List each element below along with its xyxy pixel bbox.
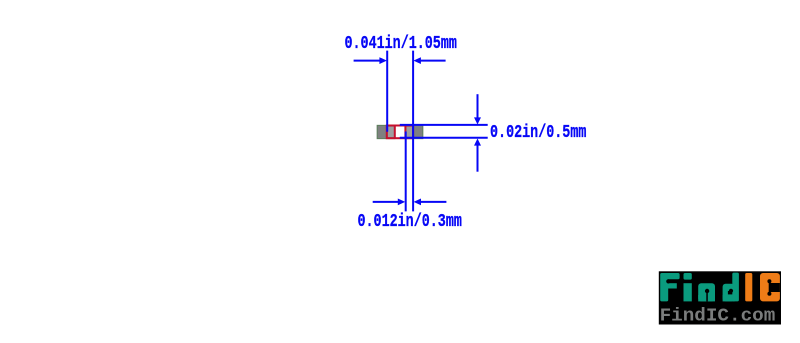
logo via dot on F [666, 279, 670, 283]
right terminal overlap [406, 127, 412, 137]
extension line B [412, 51, 414, 212]
right dimension bottom horizontal line [400, 137, 488, 139]
top dimension right arrowhead [413, 57, 421, 64]
extension line A [386, 51, 388, 132]
logo notch on d [728, 291, 732, 294]
logo letter i stem [684, 283, 692, 301]
logo via dot on d [729, 289, 733, 293]
logo letter I [745, 273, 752, 301]
logo via dot on C bottom [767, 292, 771, 296]
body right terminal divider [404, 126, 406, 139]
FindIC logo background [659, 271, 781, 324]
logo via dot on C top [767, 279, 771, 283]
right dimension lower extension line [477, 145, 479, 172]
logo letter F mid bar [666, 283, 677, 288]
left pad [377, 125, 395, 138]
logo letter i tittle [684, 273, 692, 280]
logo letter C counter [770, 283, 780, 292]
component body outline [387, 126, 413, 139]
extension line C [405, 132, 407, 212]
logo letter n block [698, 283, 715, 301]
logo letter n bottom square [698, 295, 715, 301]
bottom dimension left arrow line [373, 201, 399, 203]
top dimension right arrow line [421, 60, 446, 62]
logo letter F top bar [666, 273, 680, 279]
top dimension left arrowhead [379, 57, 387, 64]
left terminal overlap [388, 127, 394, 137]
logo via dot on n [705, 289, 709, 293]
svg-text:0.02in/0.5mm: 0.02in/0.5mm [490, 123, 586, 143]
logo letter F stem [660, 273, 668, 301]
bottom dimension left arrowhead [398, 199, 405, 206]
right dimension upper arrowhead [474, 117, 481, 124]
logo trace on C [769, 281, 771, 294]
logo letter d bowl square [723, 295, 735, 301]
right pad [405, 125, 423, 138]
logo letter d bowl [723, 284, 735, 302]
right dimension upper extension line [477, 94, 479, 118]
svg-text:0.012in/0.3mm: 0.012in/0.3mm [358, 212, 462, 232]
svg-text:FindIC.com: FindIC.com [660, 306, 776, 327]
logo letter C block [760, 273, 780, 301]
top dimension left arrow line [354, 60, 381, 62]
bottom dimension right arrowhead [414, 199, 421, 206]
right dimension top horizontal line [400, 124, 488, 126]
bottom dimension right arrow line [421, 201, 447, 203]
right dimension lower arrowhead [474, 139, 481, 146]
body left terminal divider [394, 126, 396, 139]
logo letter d stem [732, 273, 739, 302]
svg-text:0.041in/1.05mm: 0.041in/1.05mm [345, 34, 457, 54]
logo trace on n [706, 291, 708, 301]
